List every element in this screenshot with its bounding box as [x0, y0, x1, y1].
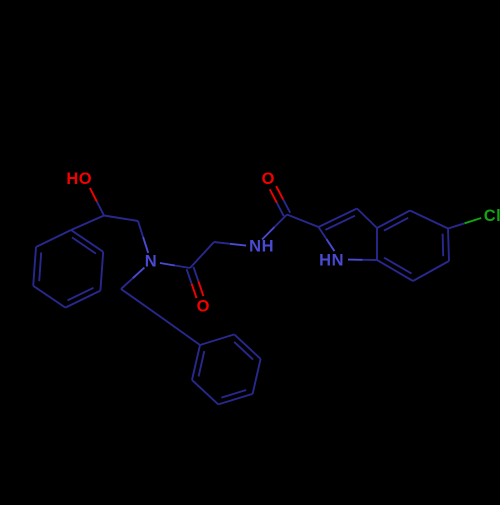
svg-text:NH: NH [249, 238, 274, 256]
svg-text:O: O [262, 170, 275, 188]
svg-text:O: O [197, 298, 210, 316]
svg-text:HN: HN [319, 252, 344, 270]
svg-text:HO: HO [66, 170, 92, 188]
svg-text:Cl: Cl [484, 207, 500, 225]
svg-text:N: N [145, 253, 157, 271]
